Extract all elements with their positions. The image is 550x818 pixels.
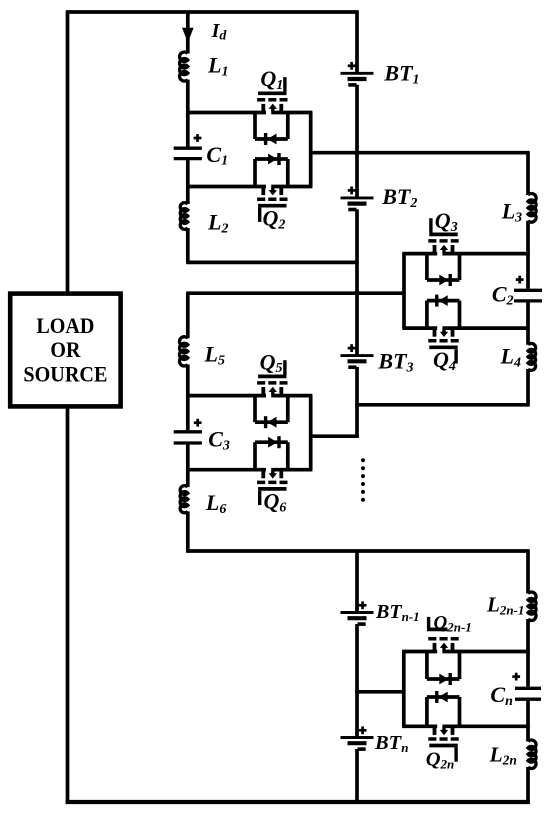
wire switch1 upper-right stub [286,114,290,140]
wire L1 to C1 [186,80,190,147]
wire L6 down [186,511,190,551]
svg-text:OR: OR [50,337,81,362]
transistor Q4 [428,329,458,363]
wire node group3-top / switch2 output [186,291,406,295]
capacitor C1 [174,134,202,159]
wire switch1 lower-left stub [253,159,257,186]
wire switch-n left rail [402,652,406,727]
wire switch1 output to rail [311,151,530,155]
wire switch3 top rail right [271,394,312,398]
LOAD OR SOURCE box [10,294,120,407]
svg-text:LOAD: LOAD [36,313,94,338]
wire L2n-1 to Cn [526,619,530,687]
wire left bus upper [66,12,70,294]
inductor L1 [180,52,188,81]
battery BT1 [341,62,374,85]
wire group3 top [186,293,190,338]
capacitor Cn [512,673,541,700]
wire L2 down [186,228,190,262]
diode D4 (body of Q4) [437,295,448,307]
capacitor C2 [514,276,542,301]
wire L5 to C3 [186,365,190,431]
wire switch2 bottom rail left [402,326,437,330]
transistor Q5 [257,360,287,394]
svg-text:SOURCE: SOURCE [23,361,107,386]
wire group1 bottom [186,261,357,265]
diode D2n-1 (body of Q2n-1) [439,673,450,685]
wire switch1 bottom rail right [271,185,312,189]
wire string seg3 [355,209,359,355]
wire switch1 upper-left stub [253,114,257,140]
wire switch3 top rail left [186,394,266,398]
inductor L6 [180,486,188,513]
wire switch3 upper diode link [255,420,288,424]
wire switch-n bottom rail left [402,724,437,728]
wire switch3 upper-right stub [286,397,290,423]
wire switch2 upper-left stub [425,255,429,280]
wire switch-n top rail right [442,650,529,654]
wire switch-n lower diode link [427,695,460,699]
wire switch1 bottom rail left [186,185,266,189]
wire switch3 output to string [311,434,359,438]
battery BT3 [341,344,374,367]
wire string seg7 [355,749,359,802]
wire switch-n bottom rail right [442,724,529,728]
wire switch-n lower-left stub [425,697,429,725]
wire switch1 lower-right stub [286,159,290,186]
wire switch2 lower-left stub [425,301,429,328]
diode D2 (body of Q2) [268,153,279,165]
wire switch3 lower-left stub [253,442,257,469]
wire group3 bottom [186,549,530,553]
wire rail to L2n-1 [526,551,530,594]
wire switch2 upper-right stub [458,255,462,280]
arrow Id [182,28,194,43]
diode D6 (body of Q6) [268,436,279,448]
diode D1 (body of Q1) [266,133,277,145]
inductor L2 [180,203,188,230]
wire C1 to L2 [186,159,190,204]
wire switch3 bottom rail right [271,468,312,472]
wire switch1 lower diode link [255,157,288,161]
wire group1 top [186,12,190,54]
battery BT2 [341,187,374,210]
transistor Q2n-1 [427,617,459,651]
wire L4 down [526,369,530,405]
inductor L2n-1 [528,592,536,620]
wire C3 to L6 [186,443,190,487]
wire switch3 bottom rail left [186,468,266,472]
inductor L3 [528,194,536,223]
wire switch2 lower diode link [427,299,460,303]
wire switch2 bottom rail right [442,326,529,330]
wire left bus lower [66,406,70,802]
wire switch-n lower-right stub [458,697,462,725]
wire switch-n output to string [355,690,404,694]
wire string seg2 [355,85,359,198]
wire switch1 top rail right [271,111,312,115]
wire switch-n top rail left [402,650,437,654]
wire top bus [66,10,359,14]
wire switch-n upper-left stub [425,653,429,680]
wire switch2 lower-right stub [458,301,462,328]
inductor L5 [180,337,188,366]
wire switch1 top rail left [186,111,266,115]
wire L2n down [526,767,530,802]
wire L4-bottom to string [355,403,529,407]
wire C2 to L4 [526,301,530,345]
wire switch2 top rail left [402,252,437,256]
wire switch-n upper diode link [427,677,460,681]
wire switch1 right rail [309,113,313,187]
wire string seg4 [355,367,359,438]
wire string seg6 [355,624,359,738]
wire switch2 upper diode link [427,278,460,282]
wire switch1 upper diode link [255,137,288,141]
battery BTn [341,726,374,749]
transistor Q2 [257,188,287,222]
wire switch-n upper-right stub [458,653,462,680]
diode D5 (body of Q5) [266,416,277,428]
battery BTn-1 [341,601,374,624]
diode D3 (body of Q3) [439,274,450,286]
wire switch3 upper-left stub [253,397,257,423]
wire switch3 lower-right stub [286,442,290,469]
wire switch3 lower diode link [255,440,288,444]
inductor L4 [528,343,536,370]
inductor L2n [528,740,536,768]
wire switch2 left rail [402,254,406,329]
transistor Q3 [428,218,458,252]
wire string seg5 [355,551,359,613]
wire switch2 top rail right [442,252,529,256]
wire L3 to C2 [526,221,530,289]
wire switch3 right rail [309,396,313,470]
wire bottom bus [66,800,530,804]
transistor Q6 [257,471,287,505]
capacitor C3 [174,419,202,443]
transistor Q2n [428,727,458,761]
transistor Q1 [257,77,287,111]
wire string seg1 [355,12,359,73]
wire rail to L3 [526,153,530,195]
diode D2n (body of Q2n) [437,691,448,703]
wire Cn to L2n [526,699,530,741]
dots: string continuation [361,458,365,502]
